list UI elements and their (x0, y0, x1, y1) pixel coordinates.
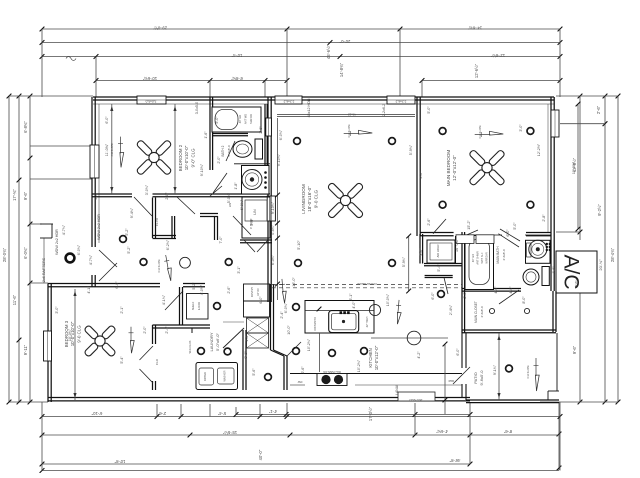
svg-text:14'-8¾": 14'-8¾" (339, 62, 344, 77)
svg-text:10'-2¾": 10'-2¾" (357, 359, 361, 372)
svg-text:2'-6": 2'-6" (227, 286, 231, 294)
svg-text:A/C: A/C (559, 254, 582, 289)
svg-text:15'-2": 15'-2" (467, 220, 471, 230)
svg-text:6'-8¾": 6'-8¾" (231, 76, 243, 81)
svg-text:2'-6": 2'-6" (157, 411, 166, 416)
svg-text:2'-6": 2'-6" (301, 366, 305, 374)
svg-text:CLO: CLO (155, 358, 159, 365)
svg-text:9'-0" CLG: 9'-0" CLG (190, 148, 195, 168)
svg-text:10'-2¾": 10'-2¾" (307, 338, 311, 351)
svg-text:3-0x5-0: 3-0x5-0 (145, 99, 156, 103)
svg-text:12'-2½": 12'-2½" (537, 143, 541, 156)
svg-text:WRRDAR: WRRDAR (486, 252, 489, 263)
svg-text:4'-6": 4'-6" (494, 286, 498, 294)
svg-text:9'-4¾": 9'-4¾" (130, 207, 134, 218)
svg-text:7'-0": 7'-0" (219, 236, 223, 244)
svg-text:2'-4": 2'-4" (165, 326, 169, 334)
svg-text:48x12 HDR: 48x12 HDR (307, 98, 311, 117)
svg-text:16" OC: 16" OC (455, 240, 459, 252)
svg-text:6'-0": 6'-0" (105, 116, 109, 124)
svg-text:5'-0": 5'-0" (215, 116, 219, 124)
svg-text:SHR RD: SHR RD (249, 114, 253, 124)
svg-text:WDW 2x2 HDR: WDW 2x2 HDR (97, 214, 101, 240)
svg-text:4'-0": 4'-0" (509, 286, 513, 294)
svg-text:2-2x6-2: 2-2x6-2 (283, 99, 294, 103)
svg-text:2'-0": 2'-0" (463, 291, 467, 299)
svg-text:6'-0¾": 6'-0¾" (284, 302, 288, 313)
svg-text:12'-2½": 12'-2½" (572, 161, 576, 174)
svg-text:9'-10¾": 9'-10¾" (200, 163, 204, 176)
svg-text:CL.PD: CL.PD (155, 218, 159, 226)
svg-text:DRYER: DRYER (203, 372, 207, 381)
svg-text:5'-0"x6'-0": 5'-0"x6'-0" (215, 332, 220, 351)
svg-text:SHELF: SHELF (191, 301, 195, 310)
svg-text:5'-0": 5'-0" (427, 106, 431, 114)
svg-text:2x6 RAFTERS: 2x6 RAFTERS (42, 257, 46, 282)
svg-text:6'-10": 6'-10" (91, 411, 102, 416)
svg-text:9'-10¾": 9'-10¾" (271, 201, 275, 214)
svg-text:2'-8": 2'-8" (250, 218, 254, 226)
svg-text:W.D.CLOS: W.D.CLOS (188, 340, 192, 353)
svg-text:6'-0": 6'-0" (259, 296, 263, 304)
svg-text:4'-0": 4'-0" (352, 301, 356, 309)
svg-text:9'-11": 9'-11" (23, 344, 28, 355)
svg-text:MAIN BATH: MAIN BATH (496, 246, 500, 264)
svg-text:9'-6": 9'-6" (572, 345, 577, 354)
svg-text:15'-5½": 15'-5½" (222, 430, 237, 435)
svg-text:5'-0": 5'-0" (513, 222, 517, 230)
svg-text:9'-2½": 9'-2½" (597, 204, 602, 216)
svg-text:5'-9¾": 5'-9¾" (402, 256, 406, 267)
svg-text:9'-10¾": 9'-10¾" (277, 153, 281, 166)
svg-text:12'-6½": 12'-6½" (474, 63, 479, 78)
svg-text:4'-1": 4'-1" (87, 286, 91, 294)
svg-text:PATIO: PATIO (473, 372, 478, 383)
svg-text:KITCHEN: KITCHEN (368, 348, 373, 367)
svg-text:6'-0": 6'-0" (431, 292, 435, 300)
svg-text:3-0x5-0: 3-0x5-0 (195, 102, 199, 115)
svg-text:LIVINGROOM: LIVINGROOM (301, 184, 306, 214)
svg-text:9'-1¾": 9'-1¾" (493, 364, 497, 375)
svg-text:LANAI: LANAI (395, 385, 399, 395)
svg-text:2'-6": 2'-6" (427, 218, 431, 226)
svg-text:2'-0": 2'-0" (143, 326, 147, 334)
svg-text:5'-2": 5'-2" (125, 228, 129, 236)
svg-text:4'-1¾": 4'-1¾" (162, 294, 166, 305)
svg-text:REF: REF (448, 379, 454, 383)
svg-text:4'-0½": 4'-0½" (200, 284, 204, 295)
svg-text:9'-6x5'-0: 9'-6x5'-0 (479, 370, 484, 386)
svg-text:PANTRY: PANTRY (250, 287, 254, 298)
svg-text:4:12 SLOPE: 4:12 SLOPE (158, 259, 161, 273)
svg-text:16'-0": 16'-0" (292, 277, 296, 287)
svg-text:12'-8½": 12'-8½" (490, 53, 505, 58)
svg-text:6'-0¾": 6'-0¾" (271, 254, 275, 265)
svg-text:10'-6¾": 10'-6¾" (142, 76, 157, 81)
svg-text:RH+OVEN-ON: RH+OVEN-ON (323, 370, 340, 374)
svg-text:1'-6": 1'-6" (204, 131, 208, 139)
svg-text:2'-6": 2'-6" (596, 105, 601, 114)
svg-text:4:12 SLOPE: 4:12 SLOPE (348, 124, 351, 138)
svg-text:6'-2¾": 6'-2¾" (166, 239, 170, 250)
svg-text:6'-8¾": 6'-8¾" (23, 121, 28, 133)
svg-text:2'-1": 2'-1" (120, 306, 124, 314)
svg-text:3'-0": 3'-0" (519, 124, 523, 132)
svg-text:2-2x6-2: 2-2x6-2 (395, 99, 406, 103)
svg-text:WDW 2x2 HDR: WDW 2x2 HDR (55, 229, 59, 255)
svg-text:1'-6": 1'-6" (552, 266, 556, 274)
svg-text:4'-7¾": 4'-7¾" (62, 224, 66, 235)
svg-text:WASHER: WASHER (224, 370, 227, 381)
svg-text:4'-6x8'-0: 4'-6x8'-0 (480, 306, 484, 318)
svg-text:9'-6": 9'-6" (23, 191, 28, 200)
svg-text:2'-6": 2'-6" (259, 126, 263, 134)
svg-text:2'-0": 2'-0" (217, 156, 221, 164)
svg-text:6'-0": 6'-0" (506, 229, 510, 237)
svg-text:2'-8": 2'-8" (542, 214, 546, 222)
svg-text:28'-4¾": 28'-4¾" (610, 247, 615, 262)
svg-text:5'-6": 5'-6" (252, 368, 256, 376)
svg-text:40" GR: 40" GR (472, 254, 475, 262)
svg-text:10'-0"x12'-0": 10'-0"x12'-0" (374, 345, 379, 370)
svg-text:6'-8¾: 6'-8¾ (574, 279, 578, 287)
svg-text:3'-0": 3'-0" (94, 192, 98, 200)
svg-text:2'-8": 2'-8" (165, 192, 169, 200)
svg-text:8'-6": 8'-6" (503, 429, 512, 434)
svg-text:BATH 2: BATH 2 (221, 145, 225, 156)
svg-text:10'-0"x10'-0": 10'-0"x10'-0" (70, 321, 75, 346)
svg-text:AIR HDLR: AIR HDLR (436, 244, 440, 257)
svg-text:ANT WD: ANT WD (244, 114, 248, 124)
svg-text:1'-6": 1'-6" (245, 334, 249, 342)
svg-text:16" OC: 16" OC (257, 288, 260, 296)
svg-text:42" HIGH: 42" HIGH (366, 317, 369, 328)
svg-text:DW: DW (297, 380, 302, 384)
svg-text:10'-4": 10'-4" (231, 53, 242, 58)
svg-text:2'-4¾": 2'-4¾" (449, 304, 453, 315)
svg-text:LIN: LIN (253, 209, 257, 215)
svg-text:9'-0 CLG: 9'-0 CLG (76, 325, 81, 343)
svg-text:& ROD: & ROD (197, 302, 201, 310)
svg-text:DISHWSHR: DISHWSHR (314, 317, 317, 331)
svg-text:6'-0¾": 6'-0¾" (279, 129, 283, 140)
svg-text:MAIN BEDROOM: MAIN BEDROOM (446, 150, 451, 187)
svg-text:14'-6¾": 14'-6¾" (467, 26, 482, 31)
svg-text:18'-0"x16'-0": 18'-0"x16'-0" (307, 186, 312, 212)
svg-text:17'-¾": 17'-¾" (12, 189, 17, 201)
svg-text:4:12 SLOPE: 4:12 SLOPE (479, 125, 482, 139)
svg-text:10'-8": 10'-8" (114, 459, 125, 464)
svg-text:5'-10": 5'-10" (297, 240, 301, 250)
svg-text:FLUSH BEAM: FLUSH BEAM (357, 282, 377, 286)
svg-text:20'-0": 20'-0" (339, 39, 350, 44)
svg-text:6'-0¾": 6'-0¾" (23, 247, 28, 259)
svg-text:6'-0": 6'-0" (115, 281, 119, 289)
svg-text:40" GR: 40" GR (238, 115, 242, 124)
svg-text:5'-4": 5'-4" (217, 411, 226, 416)
svg-text:20'-¾": 20'-¾" (598, 259, 603, 271)
svg-text:5'-9¾": 5'-9¾" (409, 144, 413, 155)
svg-text:5'-4": 5'-4" (437, 264, 441, 272)
svg-text:10'-0¾": 10'-0¾" (386, 293, 390, 306)
svg-text:3'-0¾": 3'-0¾" (145, 184, 149, 195)
svg-text:WTH SLF: WTH SLF (481, 252, 484, 263)
svg-text:3'-0": 3'-0" (419, 248, 423, 256)
svg-text:9'-1": 9'-1" (244, 351, 248, 359)
svg-text:BEDROOM 2: BEDROOM 2 (178, 144, 183, 171)
svg-text:40'-0": 40'-0" (258, 449, 263, 460)
svg-text:LAUNDRY: LAUNDRY (209, 332, 214, 351)
svg-text:5'-2": 5'-2" (127, 246, 131, 254)
svg-text:16-0 SGD: 16-0 SGD (408, 398, 422, 402)
svg-text:11'-6": 11'-6" (12, 294, 17, 305)
svg-text:4:12 SLOPE: 4:12 SLOPE (527, 365, 530, 379)
svg-text:8'-0": 8'-0" (522, 296, 526, 304)
svg-text:1'-8": 1'-8" (234, 182, 238, 190)
svg-text:28'-0¾": 28'-0¾" (2, 247, 7, 262)
svg-text:4'-6x8'-0: 4'-6x8'-0 (502, 249, 506, 261)
svg-text:12'-0"x12'-0": 12'-0"x12'-0" (452, 155, 457, 181)
svg-text:3'-0": 3'-0" (55, 306, 59, 314)
svg-text:48x12: 48x12 (348, 113, 357, 117)
svg-text:3'-0": 3'-0" (419, 171, 423, 179)
svg-text:46'-8": 46'-8" (449, 458, 460, 463)
svg-text:ANT SHWR: ANT SHWR (477, 251, 480, 264)
svg-text:6'-0": 6'-0" (456, 348, 460, 356)
svg-text:5'-0¾": 5'-0¾" (227, 192, 231, 203)
svg-text:6'-0¾": 6'-0¾" (77, 244, 81, 255)
svg-text:4'-6¾": 4'-6¾" (436, 429, 448, 434)
svg-text:2-2x6-2: 2-2x6-2 (382, 104, 386, 117)
svg-text:MAIN CLOSET: MAIN CLOSET (474, 301, 478, 323)
svg-text:45'-6½": 45'-6½" (326, 44, 331, 59)
svg-text:29'-0½": 29'-0½" (152, 26, 167, 31)
svg-text:9'-0 CLG: 9'-0 CLG (313, 189, 318, 208)
svg-text:4'-6¾": 4'-6¾" (271, 224, 275, 235)
svg-text:6'-0¾": 6'-0¾" (240, 199, 244, 210)
svg-text:10'-0": 10'-0" (287, 325, 291, 335)
svg-text:11'-0¾": 11'-0¾" (105, 143, 109, 156)
svg-text:5'-4": 5'-4" (120, 356, 124, 364)
svg-text:BEDROOM 3: BEDROOM 3 (64, 320, 69, 347)
svg-text:4'-2": 4'-2" (417, 351, 421, 359)
svg-text:17'-0½": 17'-0½" (368, 406, 373, 421)
svg-text:3'-1": 3'-1" (349, 293, 353, 301)
svg-text:10'-0"x10'-0": 10'-0"x10'-0" (184, 145, 189, 170)
svg-text:4'-7¾": 4'-7¾" (89, 254, 93, 265)
svg-text:3'-1": 3'-1" (237, 266, 241, 274)
svg-text:5'-2": 5'-2" (192, 282, 196, 290)
svg-text:4'-1": 4'-1" (268, 409, 277, 414)
